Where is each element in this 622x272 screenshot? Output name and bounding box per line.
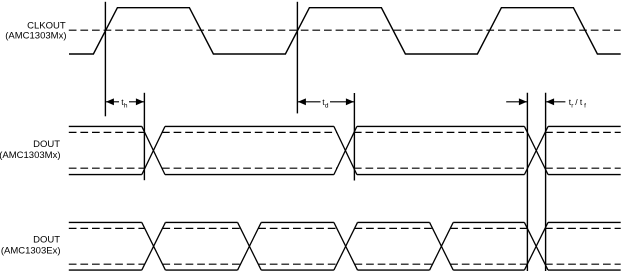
wire DOUT Mx crossing 1 bbox=[142, 126, 165, 174]
node transition start cursor bbox=[526, 93, 528, 271]
wire DOUT Ex bottom rail bbox=[69, 269, 621, 271]
dimension t_d arrow bbox=[297, 97, 354, 110]
wire DOUT Ex crossing 1 bbox=[142, 222, 166, 270]
svg-text:DOUT: DOUT bbox=[33, 139, 60, 150]
wire DOUT Ex crossing 4 bbox=[430, 222, 454, 270]
node DOUT (AMC1303Mx) label bbox=[0, 139, 61, 161]
wire DOUT Ex crossing 2 bbox=[238, 222, 262, 270]
wire DOUT Mx crossing 3 bbox=[524, 126, 548, 174]
svg-text:(AMC1303Ex): (AMC1303Ex) bbox=[1, 246, 61, 257]
wire DOUT Mx bottom rail bbox=[69, 174, 621, 176]
wire CLKOUT waveform bbox=[69, 8, 621, 54]
wire DOUT Ex top dashed level bbox=[69, 227, 621, 229]
dimension t_r / t_f arrows bbox=[506, 97, 586, 110]
node data transition start cursor bbox=[143, 93, 145, 180]
wire DOUT Ex crossing 5 bbox=[524, 222, 548, 270]
wire DOUT Mx bottom dashed level bbox=[69, 167, 621, 169]
svg-text:f: f bbox=[584, 102, 586, 109]
wire DOUT Ex crossing 3 bbox=[334, 222, 358, 270]
wire DOUT Ex bottom dashed level bbox=[69, 263, 621, 265]
wire DOUT Ex top rail bbox=[69, 221, 621, 223]
node clock rising edge 2 cursor bbox=[296, 2, 298, 114]
svg-text:DOUT: DOUT bbox=[33, 235, 60, 246]
wire DOUT Mx top rail bbox=[69, 125, 621, 127]
node clock rising edge 1 cursor bbox=[104, 2, 106, 117]
node DOUT (AMC1303Ex) label bbox=[1, 235, 61, 257]
svg-text:/ t: / t bbox=[575, 97, 583, 107]
svg-text:(AMC1303Mx): (AMC1303Mx) bbox=[5, 30, 66, 41]
wire DOUT Mx crossing 2 bbox=[334, 126, 357, 174]
dimension t_h arrow bbox=[105, 97, 144, 110]
wire CLKOUT threshold dashed line bbox=[69, 29, 621, 31]
svg-text:d: d bbox=[325, 102, 329, 109]
svg-text:h: h bbox=[124, 102, 128, 109]
node transition end cursor bbox=[545, 93, 547, 271]
node CLKOUT label bbox=[5, 21, 66, 42]
wire DOUT Mx top dashed level bbox=[69, 131, 621, 133]
svg-text:(AMC1303Mx): (AMC1303Mx) bbox=[0, 150, 61, 161]
node data valid cursor bbox=[353, 93, 355, 181]
